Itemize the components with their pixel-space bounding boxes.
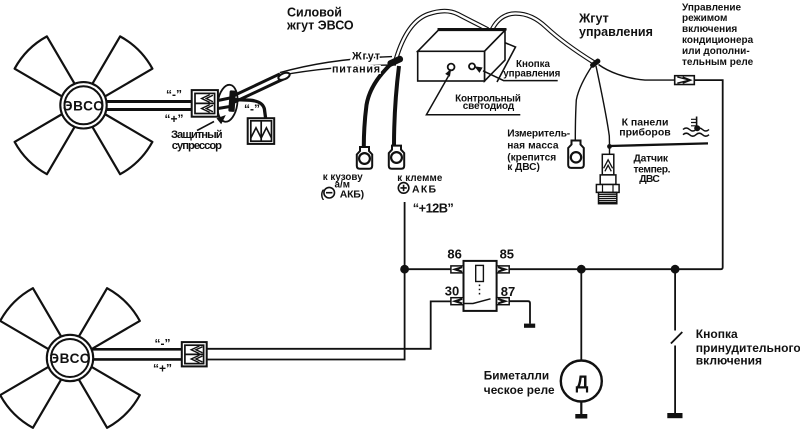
svg-text:АКБ): АКБ): [340, 189, 364, 201]
svg-text:жгут ЭВСО: жгут ЭВСО: [286, 19, 354, 33]
svg-text:режимом: режимом: [682, 13, 727, 24]
svg-text:питания: питания: [332, 64, 380, 76]
svg-text:или дополни-: или дополни-: [682, 46, 750, 57]
svg-text:87: 87: [501, 284, 515, 299]
svg-text:86: 86: [447, 246, 461, 261]
svg-text:ная масса: ная масса: [507, 141, 559, 152]
svg-text:тельным реле: тельным реле: [682, 57, 754, 68]
svg-text:“-”: “-”: [155, 337, 171, 351]
svg-text:Датчик: Датчик: [634, 153, 669, 164]
svg-text:85: 85: [500, 246, 514, 261]
svg-text:ческое реле: ческое реле: [484, 383, 555, 397]
svg-text:кондиционера: кондиционера: [682, 35, 754, 46]
svg-text:“+”: “+”: [165, 112, 184, 126]
svg-text:Д: Д: [576, 373, 589, 393]
svg-text:супрессор: супрессор: [172, 140, 222, 152]
svg-text:“-”: “-”: [244, 102, 260, 116]
svg-text:АКБ: АКБ: [412, 183, 436, 195]
svg-text:включения: включения: [696, 354, 762, 368]
svg-text:Защитный: Защитный: [171, 129, 223, 141]
svg-text:Кнопка: Кнопка: [696, 327, 738, 341]
svg-text:30: 30: [445, 283, 459, 298]
svg-text:управления: управления: [503, 69, 560, 80]
svg-text:Управление: Управление: [682, 2, 742, 13]
svg-text:к ДВС): к ДВС): [507, 162, 540, 173]
svg-text:включения: включения: [682, 24, 737, 35]
svg-text:Жгут: Жгут: [578, 11, 609, 25]
svg-text:“+12В”: “+12В”: [413, 201, 454, 216]
svg-text:светодиод: светодиод: [463, 101, 515, 112]
svg-text:Биметалли: Биметалли: [484, 369, 549, 383]
svg-text:приборов: приборов: [619, 126, 671, 138]
svg-text:ДВС: ДВС: [639, 174, 660, 185]
svg-text:управления: управления: [579, 25, 653, 39]
svg-text:“+”: “+”: [153, 362, 172, 376]
svg-text:Измеритель-: Измеритель-: [507, 129, 570, 140]
svg-text:Жгут: Жгут: [351, 51, 380, 63]
svg-text:“-”: “-”: [166, 88, 182, 102]
